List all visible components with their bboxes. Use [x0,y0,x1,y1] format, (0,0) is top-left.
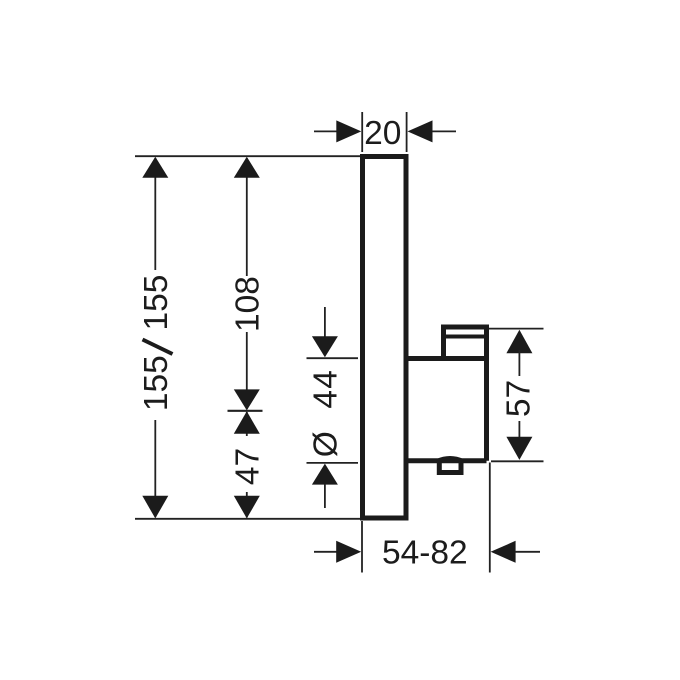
dimension 108 arrow down [234,389,260,410]
bottom stop tab arc [437,458,463,461]
dimension 155/155 arrow down [142,496,168,519]
dimension 57 line [518,350,520,438]
dimension 54-82 left arrow [336,541,361,563]
dimension D44 upper tail [324,307,326,340]
dimension 57 top extension line [489,328,544,330]
faceplate (escutcheon, side view) [363,157,407,519]
svg-text:155: 155 [138,275,175,331]
dimension 54-82 right tail [515,551,540,553]
dimension 155/155 line [154,158,156,517]
svg-text:47: 47 [230,448,267,485]
dimension D44 lower tail [324,484,326,508]
dimension 20 right arrow [408,120,433,142]
dimension 47 arrow down [234,496,260,519]
dimension 155/155 label slash [143,340,173,355]
svg-text:155: 155 [138,355,175,411]
svg-text:Ø 44: Ø 44 [308,369,345,457]
dimension 57 arrow up [506,330,532,353]
dimension 20 left arrow [336,120,361,142]
dimension 54-82 left extension line [361,521,363,573]
bottom extension line [135,518,360,520]
dimension 54-82 right arrow [491,541,516,563]
dimension 47 arrow up [234,411,260,434]
dimension 20 left tail [314,130,338,132]
dimension 54-82 left tail [314,551,338,553]
valve step inner line [446,335,484,339]
dimension D44 upper extension line [307,357,359,359]
svg-text:108: 108 [230,276,267,332]
dimension 20 right tail [432,130,456,132]
dimension 20 right extension line [406,112,408,152]
top extension line [135,155,360,157]
dimension D44 lower extension line [307,462,359,464]
valve step and right edge [444,327,487,461]
svg-text:20: 20 [364,115,401,152]
dimension 155/155 arrow up [142,157,168,178]
valve body top edge [406,356,487,361]
valve body bottom edge [406,458,487,463]
dimension D44 upper arrow down [312,336,338,357]
dimension 108 line [246,158,248,409]
dimension 57 arrow down [506,437,532,460]
bottom stop tab [439,461,461,473]
tick between 108 and 47 [228,410,263,412]
svg-text:57: 57 [501,380,538,417]
dimension 20 left extension line [361,112,363,152]
dimension 108 arrow up [234,157,260,178]
dimension D44 lower arrow up [312,464,338,485]
svg-text:54-82: 54-82 [382,535,468,572]
dimension 47 line [246,412,248,518]
dimension 54-82 right extension line [489,463,491,573]
dimension 57 bottom extension line [491,460,544,462]
